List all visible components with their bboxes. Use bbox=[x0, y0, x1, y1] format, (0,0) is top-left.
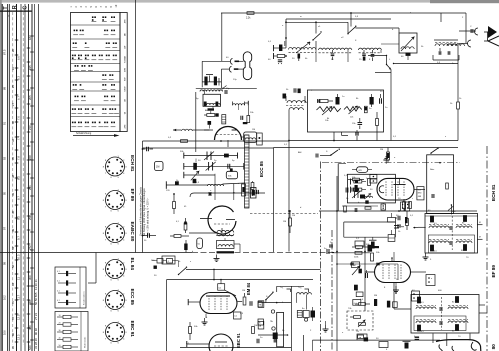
svg-text:70: 70 bbox=[11, 300, 15, 304]
capacitor C31 bbox=[147, 233, 149, 238]
cap C23 bbox=[326, 249, 328, 254]
small parts above EM84 bbox=[173, 260, 179, 262]
IF2 row2 coil left bbox=[416, 321, 436, 323]
box y217 bbox=[388, 218, 396, 223]
res on y253 bbox=[355, 251, 362, 254]
IF1 top wire bbox=[425, 215, 478, 217]
capacitor C14 bbox=[146, 147, 148, 152]
svg-text:53: 53 bbox=[11, 246, 15, 250]
arrow AM line bbox=[173, 129, 181, 131]
svg-text:1M: 1M bbox=[252, 129, 255, 131]
dipole antenna bbox=[488, 26, 497, 38]
IF2 right stub2 bbox=[479, 304, 485, 306]
diag wire EM84 bbox=[225, 290, 236, 296]
EM84 bottom wire bbox=[205, 314, 207, 318]
switch S4 blade bbox=[179, 268, 187, 275]
IF1 inner rect bbox=[428, 235, 474, 253]
box 01 above EM84 bbox=[218, 284, 225, 291]
svg-text:EABC 80: EABC 80 bbox=[130, 222, 135, 242]
svg-text:TONAB: TONAB bbox=[123, 55, 126, 63]
svg-text:C: C bbox=[23, 6, 29, 10]
wire y222 bus bbox=[344, 221, 396, 223]
svg-text:2M: 2M bbox=[380, 149, 383, 151]
wire to rod lower bbox=[221, 68, 229, 70]
svg-text:6.0: 6.0 bbox=[16, 56, 20, 60]
trimmer C6 bbox=[371, 54, 375, 56]
ECC85b grid bar bbox=[200, 218, 212, 220]
dark sq pot bbox=[359, 269, 362, 274]
res R13 row2 bbox=[350, 187, 352, 193]
svg-text:Netz: Netz bbox=[430, 168, 434, 171]
bar pair y338 bbox=[415, 337, 420, 338]
resistor R16 bbox=[403, 202, 406, 209]
small rect r2 bbox=[258, 319, 263, 325]
vert x312 bottom bbox=[312, 340, 314, 351]
res dark audio bbox=[354, 285, 358, 291]
transformer T2 windings bbox=[287, 101, 306, 103]
svg-text:30: 30 bbox=[59, 330, 61, 332]
vertical x180 bbox=[195, 159, 197, 163]
cap C25 bbox=[256, 339, 258, 344]
IF block2 frame bbox=[411, 295, 479, 334]
tube EM84 oval bbox=[200, 293, 237, 314]
dash-dot partition 2 bbox=[331, 230, 333, 351]
ground EM84 bbox=[204, 318, 206, 322]
svg-text:8.2: 8.2 bbox=[16, 176, 20, 180]
svg-text:45: 45 bbox=[11, 210, 15, 214]
IF can ECC85 bbox=[244, 132, 257, 142]
wire y340 long bbox=[313, 339, 441, 341]
vert x396 bbox=[395, 282, 397, 294]
svg-text:58: 58 bbox=[11, 264, 15, 268]
switch direction arrow bbox=[73, 135, 114, 137]
svg-text:300: 300 bbox=[28, 275, 32, 280]
svg-text:Schaltrichtung: Schaltrichtung bbox=[76, 132, 92, 135]
svg-text:50: 50 bbox=[59, 345, 61, 347]
svg-text:von +-15% sind zulassig. U = 2: von +-15% sind zulassig. U = 220 V~ bbox=[148, 197, 150, 236]
coil tap drops bbox=[315, 50, 317, 62]
svg-text:11.7: 11.7 bbox=[16, 294, 20, 300]
svg-text:31 28 20: 31 28 20 bbox=[34, 338, 38, 349]
cap C21 bbox=[345, 188, 347, 193]
bus y148 bbox=[143, 147, 274, 149]
page left border line bbox=[0, 0, 2, 351]
svg-text:30: 30 bbox=[11, 120, 15, 124]
small rect r1 bbox=[258, 302, 262, 308]
svg-text:91: 91 bbox=[3, 121, 7, 125]
converter outer lines bbox=[337, 164, 339, 211]
svg-text:7.0: 7.0 bbox=[16, 116, 20, 120]
capacitor C11 bbox=[379, 98, 381, 104]
svg-text:UKW: UKW bbox=[124, 87, 126, 92]
wire x174 to table bbox=[173, 214, 175, 221]
extra caps audio bbox=[350, 262, 354, 264]
svg-text:520: 520 bbox=[28, 345, 32, 350]
vertical x233 bbox=[233, 184, 235, 200]
dark cap T2 bbox=[283, 94, 287, 99]
wire y193 bbox=[190, 193, 265, 197]
svg-text:EF 89: EF 89 bbox=[491, 265, 496, 278]
svg-text:KW: KW bbox=[124, 78, 126, 81]
svg-text:87.5: 87.5 bbox=[3, 49, 7, 55]
svg-text:EBC 91: EBC 91 bbox=[236, 333, 241, 348]
small box with dots A bbox=[426, 275, 435, 286]
res R19 bbox=[353, 178, 360, 181]
vertical x202 bbox=[201, 61, 203, 87]
svg-text:EM 84: EM 84 bbox=[246, 282, 251, 295]
bus y166 bbox=[184, 165, 244, 167]
rect audio 290 bbox=[356, 292, 363, 297]
twin squares bbox=[370, 175, 377, 179]
tall box right bbox=[427, 155, 454, 214]
wire y44 into box bbox=[381, 43, 399, 45]
box B3 bbox=[379, 342, 388, 348]
res R28 bbox=[354, 316, 361, 319]
tube ECC85b envelope bbox=[208, 206, 236, 234]
svg-text:bei Stellung UKW ohne Signal.: bei Stellung UKW ohne Signal. Abweichung… bbox=[143, 188, 146, 236]
wire y28 to FM box bbox=[356, 27, 400, 29]
page top border bar bbox=[0, 0, 430, 3]
svg-text:ECC 85: ECC 85 bbox=[130, 289, 135, 306]
tube ECC85 envelope bbox=[215, 127, 242, 140]
svg-text:20: 20 bbox=[11, 48, 15, 52]
svg-text:1M: 1M bbox=[292, 215, 295, 217]
EBC91 internals bbox=[215, 341, 227, 343]
svg-text:95: 95 bbox=[11, 345, 15, 349]
wire y185 bbox=[166, 184, 207, 186]
ECC85 internals bbox=[204, 129, 209, 131]
res box x243 bbox=[242, 184, 246, 196]
wire right of IF2 bbox=[479, 312, 487, 314]
top coil row ECC85 bbox=[196, 87, 257, 89]
svg-text:B: B bbox=[7, 15, 11, 17]
IF1 ground bbox=[425, 253, 427, 257]
cluster near ECH osc bbox=[344, 206, 347, 212]
svg-text:102: 102 bbox=[3, 295, 7, 300]
svg-text:GR: GR bbox=[124, 98, 126, 102]
small box beside can bbox=[257, 133, 263, 145]
wire y286 bbox=[277, 285, 304, 287]
wire upper bus y22 bbox=[286, 21, 348, 23]
EM84 right stub bbox=[237, 300, 242, 302]
tube ECH81 oval bbox=[377, 178, 414, 200]
cap C20 bbox=[397, 216, 399, 221]
dial dashed verticals bbox=[12, 12, 14, 345]
trimmer C2b bbox=[278, 59, 282, 61]
IF1 left stub bbox=[418, 226, 426, 228]
main left vertical wire bbox=[95, 253, 97, 284]
jack rect 1 bbox=[258, 301, 264, 308]
resistor R10 capsule bbox=[155, 162, 164, 171]
poti P2 bbox=[344, 107, 362, 112]
junction mark bbox=[195, 166, 197, 168]
resistor R1 on top bus bbox=[247, 12, 254, 15]
dark cap C15 bbox=[193, 163, 197, 170]
bus y155 bbox=[184, 155, 238, 157]
IF1 row2 coil left bbox=[429, 241, 449, 243]
wire top horizontal bus bbox=[221, 12, 466, 14]
IF1 top tap bbox=[450, 205, 452, 214]
res R24 bbox=[243, 297, 246, 305]
svg-text:AFE: AFE bbox=[123, 124, 126, 129]
svg-text:5M: 5M bbox=[374, 295, 377, 297]
left rail x142 bbox=[142, 141, 144, 253]
svg-text:49: 49 bbox=[11, 228, 15, 232]
svg-text:AM: AM bbox=[298, 151, 301, 154]
resistor R37 dark bbox=[184, 244, 187, 251]
AM input coil L1 bbox=[289, 48, 316, 50]
svg-text:106: 106 bbox=[3, 330, 7, 335]
resistor R17 bbox=[409, 202, 412, 209]
svg-text:256: 256 bbox=[28, 215, 32, 220]
ECC85 connector wires bbox=[204, 90, 206, 94]
shield box ratio detector bbox=[308, 90, 384, 132]
svg-text:64: 64 bbox=[11, 282, 15, 286]
svg-text:272: 272 bbox=[28, 245, 32, 250]
dash-dot separator vertical bbox=[320, 162, 322, 351]
res R13 row1 bbox=[350, 179, 352, 185]
wire x391 vertical bbox=[390, 70, 392, 141]
dial heavy line top bbox=[0, 10, 32, 12]
svg-text:187: 187 bbox=[28, 35, 32, 40]
box ECC85 input bbox=[203, 94, 221, 106]
small box with dots B bbox=[412, 291, 420, 301]
extra audio wires bbox=[337, 263, 398, 265]
osc coil hatched bbox=[245, 135, 250, 208]
legend resistors box bbox=[55, 312, 88, 351]
AM input coil L2 bbox=[319, 48, 352, 50]
legend capacitors box bbox=[55, 267, 86, 308]
IF2 resistor a bbox=[417, 297, 420, 303]
svg-text:40: 40 bbox=[59, 337, 61, 339]
svg-text:195: 195 bbox=[28, 65, 32, 70]
res R31 dark bbox=[374, 299, 377, 306]
wire Tb right bbox=[234, 243, 240, 245]
svg-text:22: 22 bbox=[11, 66, 15, 70]
svg-text:41: 41 bbox=[11, 192, 15, 196]
wire y269 bus bbox=[186, 268, 321, 270]
svg-text:0,1: 0,1 bbox=[57, 271, 60, 273]
svg-text:ECH 81: ECH 81 bbox=[130, 155, 135, 172]
section border vertical x135 bbox=[135, 0, 137, 253]
wire y237 bus bbox=[344, 236, 388, 238]
trim arrow bbox=[191, 171, 199, 180]
dark bar C13c bbox=[243, 122, 248, 124]
switch S5 bbox=[266, 293, 273, 300]
ECH81 anode bar bbox=[393, 184, 405, 186]
wire y279 bus bbox=[167, 279, 314, 281]
svg-text:Widerstande: Widerstande bbox=[84, 336, 87, 348]
jack rect 2 bbox=[258, 321, 264, 329]
svg-text:241: 241 bbox=[28, 185, 32, 190]
coil arrow in box bbox=[364, 196, 373, 198]
res R23 bbox=[371, 253, 374, 261]
box 1M bbox=[352, 262, 360, 268]
wire y63 right bbox=[394, 63, 459, 65]
dashed box tone bbox=[347, 311, 373, 330]
wire y236 to transformer bbox=[189, 232, 216, 234]
tube envelope bottom edge bbox=[436, 340, 481, 351]
chassis dark segment bbox=[217, 251, 235, 253]
EM84 target bar bbox=[206, 295, 230, 297]
dark cap right bbox=[311, 311, 316, 318]
dark cap C1a bbox=[204, 77, 207, 86]
svg-text:EL 84: EL 84 bbox=[130, 258, 135, 271]
crossed trimmer X2 bbox=[208, 162, 210, 171]
electrolytic y245 bbox=[371, 242, 375, 249]
svg-text:27: 27 bbox=[11, 102, 15, 106]
dark cap C1b bbox=[214, 77, 217, 86]
dark bar y217 bbox=[405, 217, 408, 223]
cap Cdet dark bbox=[336, 97, 340, 105]
ferrite rod antenna bbox=[243, 52, 251, 80]
box small1 bbox=[355, 241, 364, 246]
cap C22 dark bbox=[360, 195, 365, 199]
interstage transformer Tb box bbox=[217, 241, 235, 249]
wire y302 bbox=[258, 302, 291, 304]
resistor R15 bbox=[289, 218, 292, 226]
box dark 302 bbox=[393, 302, 398, 308]
electrolytic y345 bbox=[405, 343, 409, 349]
capacitor C8 bbox=[438, 51, 440, 55]
IF1 resistor b bbox=[463, 216, 466, 222]
trimmer C2 dark bbox=[298, 54, 301, 59]
svg-text:6.3: 6.3 bbox=[16, 76, 20, 80]
IF2 row1 coil right bbox=[448, 307, 468, 309]
junction y211 x337 bbox=[336, 210, 338, 212]
svg-text:1M: 1M bbox=[156, 166, 159, 169]
res R35 bbox=[173, 202, 176, 209]
IF2 center caps bbox=[439, 307, 441, 311]
wire x289 vertical long bbox=[288, 110, 290, 252]
wire x458 vertical bbox=[457, 43, 459, 60]
switch S2 bbox=[387, 65, 392, 70]
trimmer C3 bbox=[331, 53, 335, 55]
svg-text:10.3: 10.3 bbox=[16, 254, 20, 260]
cap dark 301 bbox=[387, 301, 390, 308]
box B2 bbox=[357, 334, 367, 340]
switch S3 bbox=[331, 150, 338, 155]
svg-text:340: 340 bbox=[28, 300, 32, 305]
svg-text:0,1: 0,1 bbox=[57, 291, 60, 293]
capacitor C9 bbox=[447, 51, 449, 55]
cap C11b bbox=[358, 122, 363, 124]
svg-text:11: 11 bbox=[16, 277, 20, 280]
tube socket diagram ECC 85 bbox=[106, 291, 125, 310]
heater bumps bbox=[208, 184, 224, 186]
svg-text:8.7: 8.7 bbox=[16, 196, 20, 200]
IF2 resistor c bbox=[417, 325, 420, 331]
svg-text:Gemessen mit Rohrenvoltmeter g: Gemessen mit Rohrenvoltmeter gegen Chass… bbox=[140, 186, 143, 236]
wire drop x351 bbox=[350, 13, 352, 27]
cap C18 round bbox=[357, 167, 368, 173]
wire y347 long bbox=[180, 347, 291, 349]
tube EF89 oval bbox=[375, 262, 411, 283]
svg-text:1M: 1M bbox=[283, 221, 286, 223]
coupling arc A2 bbox=[468, 40, 471, 47]
FM IF transformer T1 bbox=[435, 44, 457, 46]
svg-text:38: 38 bbox=[11, 174, 15, 178]
svg-text:78: 78 bbox=[11, 316, 15, 320]
tube EBC91 circle bbox=[209, 334, 233, 351]
cap C25b bbox=[249, 301, 251, 306]
wire y140 bus bbox=[289, 140, 458, 142]
svg-text:20: 20 bbox=[59, 322, 61, 324]
trimmer C5 bbox=[362, 53, 366, 55]
dark sq C17 bbox=[193, 179, 197, 183]
cap dark y247 bbox=[368, 245, 373, 252]
resistor R7 bbox=[207, 114, 215, 117]
coupling arc A1 bbox=[475, 28, 478, 35]
resistor R39 bbox=[174, 235, 181, 238]
box above y340 bbox=[358, 335, 364, 338]
rounded box 50k bbox=[226, 171, 237, 179]
wire into EBC91 bbox=[187, 343, 209, 345]
dash-dot screen x487 bbox=[486, 146, 488, 351]
poti P1 bbox=[317, 107, 341, 112]
IF2 center dashed bbox=[441, 297, 443, 330]
cap bars x397 bbox=[394, 225, 399, 227]
svg-text:50 50 505: 50 50 505 bbox=[34, 292, 38, 305]
res R29 bbox=[359, 323, 366, 326]
tube socket diagram EL 84 bbox=[106, 260, 125, 279]
capsule R38 bbox=[197, 238, 203, 249]
svg-text:AM: AM bbox=[205, 109, 208, 112]
switch S1b bbox=[348, 27, 356, 34]
IF2 resistor d bbox=[455, 325, 458, 331]
resistor R36 bbox=[184, 223, 187, 230]
wire to rod upper bbox=[202, 60, 230, 62]
svg-text:7.4: 7.4 bbox=[16, 136, 20, 140]
resistor R6 bbox=[376, 119, 379, 126]
converter box bbox=[347, 174, 395, 203]
svg-text:0,1: 0,1 bbox=[57, 281, 60, 283]
vertical x196 bbox=[195, 92, 197, 152]
wire y148 right bbox=[274, 147, 459, 149]
box output top bbox=[388, 235, 395, 242]
cap C16 bbox=[227, 164, 229, 169]
IF2 resistor b bbox=[455, 297, 458, 303]
vertical x273 bbox=[273, 148, 275, 253]
coupling arc lower bbox=[229, 66, 231, 72]
wire y227 to IF1 bbox=[413, 227, 418, 229]
wire x337 vertical bbox=[336, 176, 338, 351]
antenna feed link bbox=[487, 32, 489, 42]
wire y141 main bbox=[143, 140, 290, 142]
svg-text:12.5: 12.5 bbox=[16, 314, 20, 320]
bus y175 bbox=[184, 174, 215, 176]
switch on tall box bbox=[431, 149, 438, 154]
wires around EF89 oval bbox=[391, 258, 393, 262]
cap C24 bbox=[329, 244, 333, 246]
wire oval to IF1 bbox=[414, 189, 425, 191]
junction dots x289 bbox=[288, 140, 290, 142]
crossed trimmer X1 bbox=[206, 152, 208, 161]
IF1 resistor c bbox=[430, 245, 433, 251]
wire into EF89 bbox=[365, 271, 375, 273]
resistor R12 bbox=[387, 152, 390, 160]
tube socket diagram ECH 81 bbox=[106, 157, 125, 176]
IF1 resistor d bbox=[463, 245, 466, 251]
svg-text:27 23: 27 23 bbox=[34, 313, 38, 320]
svg-text:C₁: C₁ bbox=[281, 285, 284, 289]
IF2 left wire bbox=[394, 308, 411, 310]
EM84 left stub bbox=[188, 301, 200, 303]
res R26 bbox=[189, 327, 192, 334]
svg-text:1M: 1M bbox=[242, 290, 245, 292]
svg-text:EABC 80: EABC 80 bbox=[491, 344, 496, 351]
switch table frame bbox=[71, 13, 121, 132]
